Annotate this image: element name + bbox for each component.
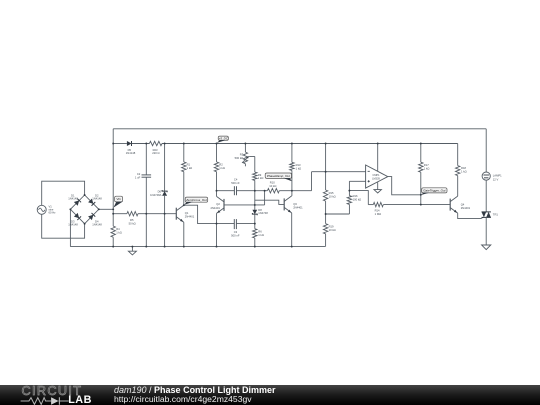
svg-text:1N4148: 1N4148 [68,197,78,201]
svg-text:R1: R1 [187,162,191,166]
svg-text:R16: R16 [353,194,358,198]
svg-text:1 kΩ: 1 kΩ [116,230,122,234]
svg-text:12 V: 12 V [493,177,499,181]
svg-text:1N4148: 1N4148 [126,151,136,155]
svg-text:C3: C3 [234,230,238,234]
svg-text:10 kΩ: 10 kΩ [329,194,336,198]
svg-text:R17: R17 [424,163,429,167]
svg-text:1 kΩ: 1 kΩ [187,166,193,170]
svg-text:1N4148: 1N4148 [92,197,102,201]
svg-text:2N4401: 2N4401 [185,215,195,219]
svg-text:10 kΩ: 10 kΩ [269,184,276,188]
svg-text:Q3: Q3 [293,202,297,206]
svg-text:ZeroCross_Out: ZeroCross_Out [185,198,207,202]
svg-text:1N4148: 1N4148 [68,223,78,227]
svg-text:C2: C2 [137,172,141,176]
svg-text:C4: C4 [234,177,238,181]
svg-text:+5_DC: +5_DC [219,136,229,140]
svg-text:220 Ω: 220 Ω [152,151,159,155]
svg-text:10 kΩ: 10 kΩ [329,228,336,232]
svg-text:2N4401: 2N4401 [210,206,220,210]
svg-text:R5: R5 [130,218,134,222]
svg-text:1 uF: 1 uF [135,175,141,179]
svg-text:Q2: Q2 [216,202,220,206]
svg-text:TR1: TR1 [493,212,499,216]
svg-text:R13: R13 [296,163,301,167]
svg-text:R15: R15 [329,191,334,195]
svg-text:1 kΩ: 1 kΩ [424,166,430,170]
svg-text:Q4: Q4 [461,202,465,206]
svg-text:1 kΩ: 1 kΩ [461,170,467,174]
svg-text:LAMP1: LAMP1 [493,174,502,178]
svg-text:LM339: LM339 [372,178,380,181]
svg-text:D6: D6 [158,189,162,193]
svg-text:GateTrigger_Out: GateTrigger_Out [423,188,445,192]
svg-text:50 kΩ: 50 kΩ [129,221,136,225]
svg-text:R2: R2 [219,162,223,166]
svg-text:R6: R6 [258,229,262,233]
svg-text:60 Hz: 60 Hz [49,211,57,215]
svg-text:2N4401: 2N4401 [293,206,303,210]
svg-text:R18: R18 [461,166,466,170]
svg-text:R3: R3 [240,153,244,157]
svg-text:2N4401: 2N4401 [461,206,471,210]
svg-text:100 kΩ: 100 kΩ [353,197,362,201]
svg-text:Q1: Q1 [185,211,189,215]
svg-text:1 MΩ: 1 MΩ [375,212,382,216]
svg-text:1N4748A: 1N4748A [150,193,161,197]
svg-text:R14: R14 [375,209,380,213]
svg-text:R9: R9 [258,173,262,177]
svg-text:1 kΩ: 1 kΩ [258,176,264,180]
svg-text:1 kΩ: 1 kΩ [219,166,225,170]
svg-text:1 kΩ: 1 kΩ [258,233,264,237]
svg-text:1N4748: 1N4748 [258,211,268,215]
svg-text:1 kΩ: 1 kΩ [296,166,302,170]
svg-text:VIn: VIn [116,197,121,201]
svg-text:R19: R19 [329,225,334,229]
svg-text:500 kΩ: 500 kΩ [235,156,244,160]
svg-text:500 nF: 500 nF [231,233,240,237]
svg-text:R4: R4 [116,227,120,231]
svg-text:PhaseRamp_Out: PhaseRamp_Out [267,174,290,178]
svg-text:1N4148: 1N4148 [92,223,102,227]
svg-text:500 nF: 500 nF [231,181,240,185]
